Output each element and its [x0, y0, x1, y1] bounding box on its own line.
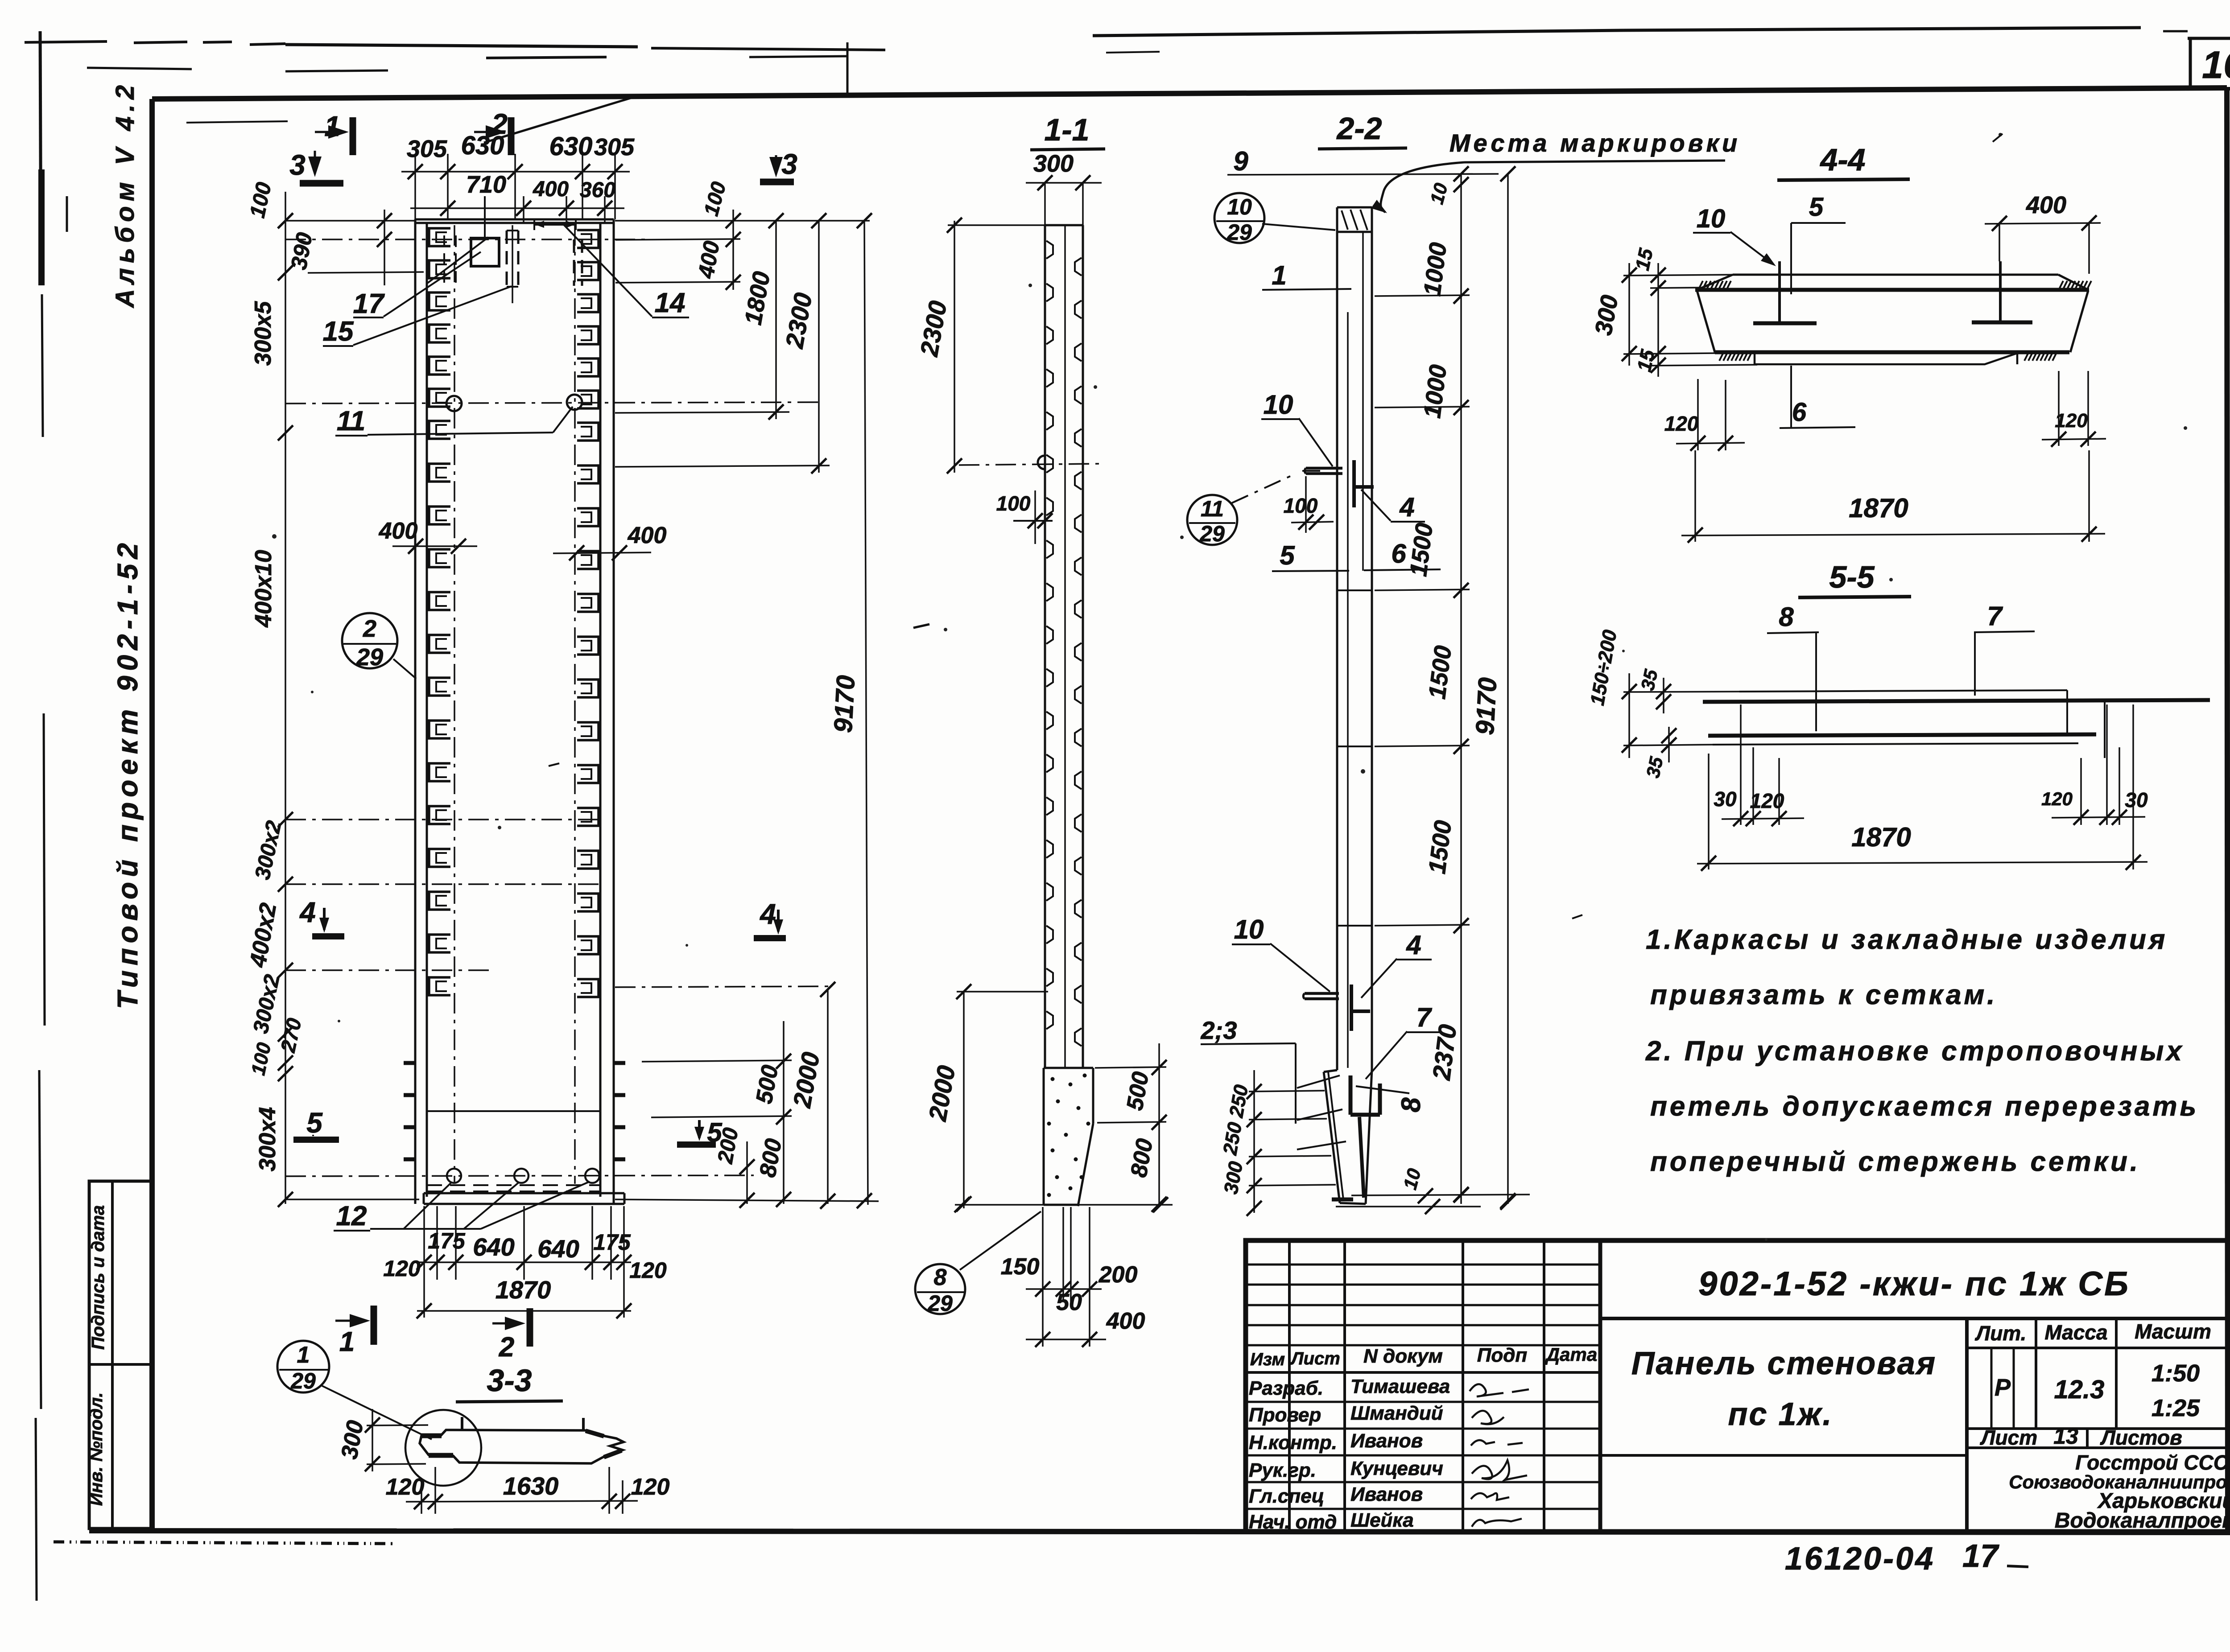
svg-text:120: 120 [629, 1258, 667, 1283]
upper anchor item 10/4 [1302, 460, 1374, 507]
svg-text:15: 15 [323, 316, 354, 347]
svg-text:640: 640 [537, 1235, 579, 1263]
1-1 lifting hook [1038, 456, 1045, 469]
svg-text:710: 710 [466, 171, 506, 198]
svg-text:360: 360 [580, 178, 615, 202]
svg-text:15: 15 [1633, 347, 1659, 374]
svg-text:35: 35 [1642, 755, 1667, 780]
lit/massa/masshtab cells [1967, 1318, 2228, 1429]
svg-text:400: 400 [2026, 192, 2066, 218]
svg-text:400: 400 [1106, 1308, 1145, 1334]
callout 4 (lower) [1361, 930, 1432, 998]
svg-text:10: 10 [1399, 1166, 1425, 1192]
svg-text:Разраб.: Разраб. [1249, 1377, 1323, 1399]
svg-text:9: 9 [1233, 146, 1248, 176]
3-3 bottom dims 120/1630/120 [386, 1467, 670, 1514]
chain 250/250/300 left of footing [1219, 1070, 1336, 1216]
svg-text:150: 150 [1001, 1254, 1040, 1280]
title 3-3 [456, 1363, 563, 1402]
svg-text:Панель стеновая: Панель стеновая [1631, 1346, 1937, 1381]
svg-text:13: 13 [2053, 1424, 2078, 1449]
bottom speckle line [54, 1542, 392, 1544]
svg-text:400: 400 [693, 239, 724, 280]
name cell [1600, 1318, 1967, 1532]
callout 11 [335, 406, 573, 437]
title 5-5 [1798, 560, 1911, 597]
svg-text:Иванов: Иванов [1350, 1430, 1423, 1452]
bottom dims 175/640/640/175 + 120 [383, 1206, 667, 1318]
callout 17 [353, 252, 481, 319]
bar callouts 5 and 6 [1272, 539, 1441, 571]
svg-text:3: 3 [781, 148, 797, 180]
left dimension chain of front view [245, 192, 419, 1207]
side hook ticks 300x4 zone [404, 1063, 625, 1159]
svg-text:1870: 1870 [1849, 493, 1908, 523]
5-5 mesh bars [1703, 690, 2210, 758]
svg-text:1500: 1500 [1424, 819, 1457, 876]
svg-text:2. При установке строповочных: 2. При установке строповочных [1645, 1036, 2185, 1067]
dim 400 top right [1985, 192, 2101, 274]
lower anchor item 10 [1303, 985, 1370, 1031]
svg-text:10: 10 [1227, 194, 1252, 219]
svg-text:400: 400 [628, 523, 667, 548]
svg-text:8: 8 [1779, 602, 1794, 632]
svg-text:Шейка: Шейка [1350, 1509, 1414, 1531]
section marker 4 (left) [299, 896, 344, 936]
callout 8 (rotated) [1356, 1086, 1426, 1112]
svg-text:Госстрой СССР: Госстрой СССР [2075, 1451, 2230, 1474]
callout circle 10/29 [1214, 193, 1335, 245]
leader lines to footing [1297, 1075, 1346, 1149]
top dimension row 710/400/360 [410, 171, 624, 223]
svg-text:Лит.: Лит. [1975, 1322, 2027, 1345]
svg-text:1870: 1870 [1851, 822, 1911, 852]
svg-text:400: 400 [379, 518, 418, 544]
svg-text:17: 17 [1962, 1538, 1999, 1574]
dashed contour near left rib top [455, 235, 457, 285]
svg-text:630: 630 [461, 131, 504, 160]
svg-text:1870: 1870 [496, 1276, 551, 1304]
svg-text:120: 120 [386, 1474, 425, 1500]
2-2 body [1337, 207, 1372, 1070]
svg-text:1:50: 1:50 [2152, 1360, 2200, 1387]
signature rows [1249, 1376, 1450, 1533]
svg-text:3: 3 [289, 149, 306, 181]
svg-text:400х2: 400х2 [245, 901, 281, 970]
stray pen dashes [549, 134, 2003, 919]
hatch openings along both ribs [429, 228, 599, 997]
svg-text:10: 10 [1234, 915, 1264, 944]
svg-text:16: 16 [2202, 44, 2230, 87]
svg-text:1: 1 [324, 110, 340, 142]
svg-text:Шмандий: Шмандий [1350, 1402, 1443, 1424]
svg-text:300: 300 [336, 1418, 368, 1461]
svg-text:4: 4 [1406, 930, 1421, 960]
svg-text:2300: 2300 [780, 291, 818, 351]
organisation cell [2009, 1451, 2230, 1533]
dims 15/300/15 left [1590, 246, 1757, 377]
svg-text:500: 500 [1122, 1070, 1154, 1112]
1-1 body: ribbed panel section [1045, 225, 1083, 1068]
callout 8 [1767, 602, 1819, 731]
svg-text:29: 29 [1226, 220, 1252, 245]
title 2-2 [1318, 111, 1407, 149]
paper edge artifacts top [25, 28, 2188, 143]
left margin stamp boxes [87, 1181, 152, 1528]
svg-text:1: 1 [339, 1327, 355, 1357]
svg-text:305: 305 [407, 136, 447, 162]
section marker 3 (top-left) [289, 149, 343, 183]
svg-text:300: 300 [1033, 150, 1074, 177]
3-3 profile with keyed ends [405, 1410, 624, 1486]
svg-text:Подпись и дата: Подпись и дата [88, 1205, 108, 1350]
svg-text:29: 29 [927, 1291, 953, 1316]
svg-text:1000: 1000 [1419, 241, 1452, 298]
callout 2;3 [1201, 1016, 1296, 1124]
svg-text:Типовой проект 902-1-52: Типовой проект 902-1-52 [111, 538, 144, 1009]
svg-text:6: 6 [1391, 539, 1406, 569]
svg-text:305: 305 [594, 134, 635, 161]
svg-text:Подп: Подп [1477, 1344, 1528, 1366]
svg-text:поперечный стержень сетки.: поперечный стержень сетки. [1650, 1146, 2140, 1177]
callout 10 (upper) [1261, 390, 1333, 466]
section marker 3 (top-right) [760, 148, 797, 182]
1-1 bottom dims 150/50/200 and 400 [1001, 1207, 1145, 1347]
signature squiggles [1470, 1384, 1529, 1527]
svg-text:Н.контр.: Н.контр. [1249, 1432, 1337, 1454]
section marker 5 (right) [677, 1117, 723, 1147]
svg-text:6: 6 [1792, 398, 1807, 427]
callout circle 8/29 [915, 1211, 1041, 1316]
svg-text:1630: 1630 [503, 1472, 559, 1500]
svg-text:Р: Р [1995, 1374, 2011, 1401]
svg-text:5: 5 [306, 1107, 323, 1139]
2-2 dimension chain 10/1000/1000/1500/1500/1500/2370 [1375, 166, 1470, 1204]
callout 6 [1780, 366, 1855, 428]
4-4 end hatch strips [1699, 281, 2091, 361]
callout 1 [1262, 260, 1351, 290]
svg-text:630: 630 [549, 132, 593, 161]
panel outline: two ribs (plan) [415, 219, 614, 1204]
svg-text:Тимашева: Тимашева [1350, 1376, 1450, 1397]
svg-text:2300: 2300 [915, 299, 952, 359]
right chains: 100 400 1800 2300 9170 [615, 179, 872, 1205]
1-1 dim 100 at hook [996, 490, 1053, 544]
svg-text:300х2: 300х2 [249, 972, 285, 1036]
svg-text:250: 250 [1219, 1121, 1246, 1157]
top dimension row 305/630/630/305 [401, 131, 635, 219]
svg-text:7: 7 [1987, 601, 2003, 631]
footing bracket items 7/8 [1332, 1075, 1380, 1199]
callout 5 with line [1791, 193, 1846, 294]
section markers 1,2 above 3-3 [335, 1306, 530, 1363]
svg-text:Лист: Лист [1980, 1426, 2037, 1449]
title 1-1 [1030, 112, 1105, 150]
dashed embed item 15 [507, 225, 518, 303]
handwritten archive number [1785, 1538, 1999, 1577]
callout 4 (upper) [1361, 490, 1425, 522]
callout circle 1/29 [277, 1341, 432, 1439]
svg-text:2000: 2000 [788, 1050, 825, 1110]
svg-text:9170: 9170 [1470, 677, 1503, 736]
section marker 2 (top) [474, 108, 511, 155]
2-2 footing taper [1324, 1069, 1372, 1204]
2-2 bottom dims [1336, 1166, 1530, 1214]
section marker 4 (right) [754, 898, 786, 938]
1-1 chain 500/800 [1095, 1043, 1167, 1212]
svg-text:1000: 1000 [1419, 363, 1452, 420]
svg-text:4: 4 [1399, 492, 1414, 522]
svg-text:30: 30 [2125, 788, 2148, 812]
anchor circles in base [447, 1169, 461, 1183]
1-1 rib notches [1046, 241, 1082, 1046]
axis dash-dot lines [285, 225, 821, 1184]
note Места маркировки [1371, 129, 1740, 213]
svg-text:2: 2 [363, 615, 376, 642]
svg-text:29: 29 [356, 644, 383, 671]
doc number cell [1600, 1317, 2228, 1320]
svg-text:175: 175 [428, 1228, 466, 1253]
svg-text:12: 12 [336, 1201, 367, 1232]
callout circle 2/29 [342, 613, 416, 679]
svg-text:29: 29 [290, 1368, 316, 1393]
svg-text:902-1-52 -кжи- пс 1ж СБ: 902-1-52 -кжи- пс 1ж СБ [1698, 1265, 2130, 1303]
svg-text:390: 390 [286, 231, 317, 272]
svg-text:640: 640 [473, 1233, 514, 1261]
section marker 1 (top) [315, 110, 353, 155]
svg-text:200: 200 [1098, 1262, 1138, 1288]
svg-text:4: 4 [299, 896, 316, 928]
svg-text:привязать к сеткам.: привязать к сеткам. [1650, 980, 1998, 1010]
svg-text:50: 50 [1056, 1289, 1082, 1315]
photocopy specks [272, 133, 2187, 1241]
dims 150-200 and 35/35 [1586, 628, 1739, 780]
dim 1870 [1697, 704, 2147, 871]
svg-text:500: 500 [751, 1063, 783, 1106]
svg-text:30: 30 [1714, 787, 1737, 811]
svg-text:Места маркировки: Места маркировки [1449, 129, 1740, 157]
svg-text:300: 300 [1590, 293, 1623, 337]
svg-text:17: 17 [353, 288, 385, 319]
top 400 bracket [534, 218, 576, 230]
lower interior lines of panel [424, 1111, 624, 1204]
dim 100 at upper anchor [1284, 476, 1334, 533]
svg-text:петель допускается перерезать: петель допускается перерезать [1650, 1091, 2199, 1122]
svg-text:Альбом V 4.2: Альбом V 4.2 [111, 80, 140, 309]
svg-text:2: 2 [499, 1332, 514, 1363]
svg-text:8: 8 [934, 1265, 947, 1290]
callout 14 [563, 224, 689, 318]
svg-text:120: 120 [2055, 410, 2088, 432]
4-4 panel cross-section outline [1695, 275, 2089, 364]
svg-text:Иванов: Иванов [1350, 1483, 1423, 1505]
svg-text:100: 100 [699, 179, 730, 218]
svg-text:Лист: Лист [1290, 1349, 1340, 1368]
svg-text:120: 120 [383, 1256, 421, 1281]
svg-text:100: 100 [246, 180, 277, 220]
page left edge [36, 31, 67, 1601]
svg-text:2000: 2000 [923, 1063, 961, 1124]
left small dims 100 / 390 [246, 180, 424, 285]
svg-text:2;3: 2;3 [1201, 1016, 1237, 1044]
400 hatch-pitch dims at mid height [379, 518, 667, 560]
svg-text:400х10: 400х10 [251, 550, 277, 628]
svg-text:3-3: 3-3 [487, 1363, 532, 1398]
svg-text:120: 120 [2041, 788, 2073, 809]
svg-text:10: 10 [1697, 204, 1726, 233]
1-1 footing with concrete dots [1044, 1068, 1093, 1206]
title 4-4 [1777, 142, 1910, 180]
svg-text:150÷200: 150÷200 [1586, 628, 1621, 707]
dims 30/120 ... 120/30 [1714, 704, 2148, 826]
notes text [1645, 924, 2199, 1177]
svg-text:100: 100 [996, 492, 1031, 515]
callout 10 [1693, 204, 1776, 266]
svg-text:300х4: 300х4 [255, 1107, 281, 1172]
svg-text:Водоканалпроект: Водоканалпроект [2055, 1509, 2230, 1533]
svg-text:4-4: 4-4 [1819, 142, 1865, 177]
svg-text:1500: 1500 [1424, 644, 1457, 701]
1-1 2000 chain [923, 984, 1048, 1211]
svg-text:7: 7 [1416, 1002, 1432, 1032]
svg-text:1.Каркасы и закладные изделия: 1.Каркасы и закладные изделия [1646, 924, 2168, 955]
svg-text:16120-04: 16120-04 [1785, 1541, 1935, 1577]
svg-text:1: 1 [297, 1342, 310, 1368]
svg-text:800: 800 [755, 1137, 787, 1179]
svg-text:250: 250 [1225, 1083, 1252, 1120]
svg-text:800: 800 [1126, 1137, 1158, 1179]
svg-text:Дата: Дата [1545, 1344, 1597, 1365]
top embedded parts: solid plate item 17 [471, 238, 499, 266]
svg-text:175: 175 [593, 1230, 631, 1255]
svg-text:1800: 1800 [739, 270, 775, 327]
anchor circles item 11 [446, 396, 462, 411]
svg-text:15: 15 [1631, 246, 1657, 272]
svg-text:120: 120 [1750, 789, 1784, 812]
svg-text:14: 14 [655, 288, 686, 318]
svg-text:Изм: Изм [1250, 1350, 1285, 1369]
svg-text:10: 10 [1426, 181, 1451, 206]
svg-text:4: 4 [759, 898, 776, 930]
dashed embed item 14 (right rib) [574, 239, 582, 286]
svg-text:Гл.спец: Гл.спец [1249, 1485, 1324, 1507]
callout 12 with leaders [334, 1182, 590, 1232]
dim 300 left of 3-3 [336, 1409, 428, 1471]
callout circle 11/29 [1187, 474, 1296, 546]
1-1 bottom line with ticks [954, 1197, 1173, 1212]
svg-text:пс 1ж.: пс 1ж. [1728, 1397, 1833, 1432]
svg-text:100: 100 [1284, 494, 1318, 517]
svg-text:29: 29 [1199, 521, 1225, 546]
svg-text:400: 400 [533, 177, 569, 201]
svg-text:Нач. отд: Нач. отд [1249, 1511, 1337, 1533]
svg-text:5: 5 [1280, 540, 1295, 570]
svg-text:1: 1 [1272, 260, 1286, 290]
svg-text:Кунцевич: Кунцевич [1350, 1458, 1443, 1479]
2-2 overall 9170 chain [1470, 166, 1516, 1208]
callout 9 [1227, 146, 1499, 176]
4-4 anchors item 5 [1753, 261, 2032, 323]
callout 10 (lower) [1232, 915, 1330, 992]
svg-text:Листов: Листов [2100, 1426, 2182, 1449]
svg-text:100: 100 [247, 1040, 275, 1077]
svg-text:Инв. №подл.: Инв. №подл. [87, 1392, 106, 1506]
right chains bottom: 500 800 200 2000 [615, 982, 879, 1209]
dim 300 at top of 1-1 [1026, 150, 1102, 225]
list cells [1967, 1429, 2228, 1448]
svg-text:2-2: 2-2 [1336, 111, 1382, 146]
svg-text:11: 11 [337, 406, 365, 437]
svg-text:1:25: 1:25 [2152, 1395, 2200, 1421]
svg-text:12.3: 12.3 [2054, 1375, 2105, 1404]
header row texts [1250, 1344, 1597, 1369]
dims 120 [1664, 371, 2106, 451]
svg-text:Рук.гр.: Рук.гр. [1249, 1459, 1316, 1481]
svg-text:300: 300 [1220, 1160, 1247, 1196]
svg-text:11: 11 [1201, 496, 1224, 521]
callout 7 [1974, 601, 2035, 696]
section marker 5 (left) [293, 1107, 339, 1140]
callout 7 [1366, 1002, 1441, 1079]
svg-text:5: 5 [1809, 193, 1824, 222]
svg-text:Масса: Масса [2044, 1321, 2107, 1344]
svg-text:Провер: Провер [1249, 1404, 1321, 1426]
svg-text:300х5: 300х5 [250, 301, 276, 366]
svg-text:5-5: 5-5 [1829, 560, 1875, 594]
dim 1870 [1681, 450, 2105, 543]
svg-text:10: 10 [1264, 390, 1293, 420]
svg-text:300х2: 300х2 [251, 819, 286, 882]
svg-text:120: 120 [1664, 412, 1699, 435]
svg-text:120: 120 [631, 1474, 670, 1500]
svg-text:Масшт: Масшт [2135, 1320, 2211, 1343]
svg-text:N докум: N докум [1363, 1345, 1443, 1367]
svg-text:1-1: 1-1 [1044, 112, 1089, 147]
svg-text:8: 8 [1396, 1097, 1426, 1112]
svg-text:35: 35 [1637, 667, 1662, 692]
svg-text:9170: 9170 [829, 675, 861, 733]
1-1 2300 chain [915, 218, 1102, 474]
sheet number box 16 [2188, 38, 2230, 89]
svg-text:270: 270 [276, 1016, 306, 1055]
callout 15 [323, 286, 512, 347]
